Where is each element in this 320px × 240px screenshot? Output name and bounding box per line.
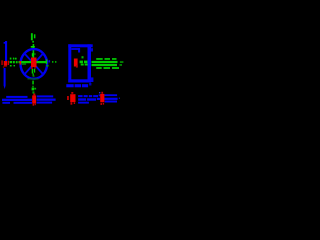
wire vertical below lamp to bottom component xyxy=(32,81,34,85)
inner notch line of J1 xyxy=(71,48,79,50)
wire dots right of lamp xyxy=(47,61,57,67)
red pin dot below pad xyxy=(76,65,78,67)
blue vertical bar lower-left xyxy=(4,68,6,86)
junction square center of lamp xyxy=(31,58,37,68)
reference text below J1 xyxy=(66,84,88,87)
lamp LA1 X diagonal 2 xyxy=(24,53,43,74)
junction pad B3 bottom right xyxy=(99,92,100,93)
corner blob bottom-right of J1 xyxy=(91,77,94,82)
green label text rows near left pin xyxy=(10,58,18,67)
blue tick right of J1 top xyxy=(91,48,93,51)
net label above wire 1 xyxy=(96,58,116,60)
pin pad red inside J1 xyxy=(74,59,78,67)
value text right of B2 xyxy=(78,95,98,104)
wire 2 right of J1 xyxy=(92,64,118,66)
wire vertical into lamp top xyxy=(33,44,35,59)
net label below wire 2 xyxy=(96,67,119,69)
net label text above lamp xyxy=(31,33,36,42)
big blue numeral 1 top-left xyxy=(4,41,8,61)
junction pad B1 bottom xyxy=(33,94,35,96)
dim second wire row inside lamp left xyxy=(22,63,27,64)
pin cluster red left edge xyxy=(1,60,2,65)
pin stub blue right of lamp xyxy=(49,60,51,62)
net label on vertical wire xyxy=(32,88,35,91)
junction pad B2 bottom middle xyxy=(67,96,69,100)
pin name text green inside J1 xyxy=(82,56,84,58)
pin number ticks below junction xyxy=(31,67,32,69)
dim wire remnant under lamp bottom edge xyxy=(28,78,39,79)
connector J1 rectangle top-right xyxy=(68,44,92,82)
pin tick right of lamp (green) xyxy=(46,59,47,64)
value text right of B3 xyxy=(105,94,121,102)
lamp LA1 body circle xyxy=(21,49,48,79)
value text rows bottom-left xyxy=(2,95,56,103)
lamp LA1 X diagonal 1 xyxy=(24,53,43,74)
wire horizontal through lamp xyxy=(19,61,47,63)
wire vertical below lamp center xyxy=(32,69,34,74)
wire 1 right of J1 xyxy=(92,61,118,63)
pin number text beside lamp top pin xyxy=(32,53,34,56)
pin tick left of lamp (red) xyxy=(20,61,22,65)
pin tick top of lamp xyxy=(31,46,35,48)
text stubs left of B3 xyxy=(99,94,101,96)
